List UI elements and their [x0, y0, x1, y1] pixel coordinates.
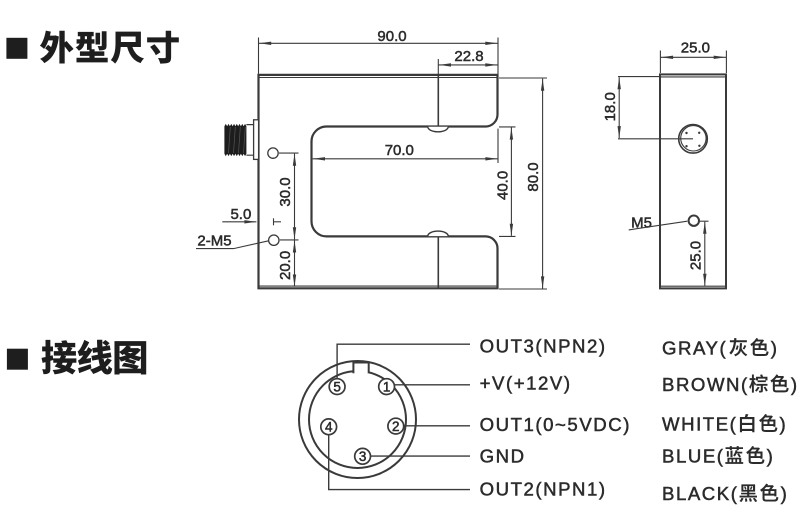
dimension 18.0 extension lines — [618, 76, 660, 78]
svg-text:20.0: 20.0 — [277, 251, 294, 280]
svg-text:OUT3(NPN2): OUT3(NPN2) — [480, 336, 607, 357]
side view: body outline — [660, 74, 726, 288]
dimension 22.8 extension line — [437, 59, 439, 75]
heading text: 外型尺寸 (outline dimensions) — [40, 31, 179, 64]
svg-text:BLUE(: BLUE( — [662, 446, 725, 467]
svg-text:3: 3 — [359, 449, 367, 464]
wiring label GRAY(灰色) — [662, 338, 777, 359]
dimension 18.0 line — [618, 77, 620, 138]
dimension 5.0 tick marks — [273, 218, 275, 225]
svg-text:70.0: 70.0 — [385, 142, 414, 159]
front view: inner vertical edge upper arm — [437, 76, 439, 127]
side view: M5 screw hole — [689, 216, 699, 226]
svg-text:): ) — [791, 374, 797, 395]
svg-text:BROWN(: BROWN( — [662, 374, 749, 395]
heading square: wiring diagram — [7, 349, 28, 370]
front view: upper mounting hole — [268, 148, 278, 158]
dimension 80.0 extension lines — [499, 77, 547, 79]
connector pin 4 — [321, 419, 337, 435]
wire pin5 to OUT3 — [337, 344, 470, 380]
front view: connector neck — [246, 125, 253, 156]
svg-text:GND: GND — [480, 446, 526, 467]
wire pin1 to +V — [393, 384, 470, 386]
connector face: outer circle — [299, 361, 416, 478]
svg-text:5.0: 5.0 — [230, 206, 251, 223]
heading text: 接线图 (wiring diagram) — [42, 340, 147, 375]
front view: U-shaped sensor body outline — [259, 75, 498, 288]
heading square: outline dimensions — [6, 38, 27, 59]
label 2-M5 leader line — [196, 241, 269, 249]
svg-text:25.0: 25.0 — [681, 40, 710, 57]
wire pin4 to OUT2 — [329, 433, 470, 490]
front view: top chamfer edge line — [260, 77, 497, 79]
dimension 25.0 right extension line — [700, 220, 709, 222]
svg-text:30.0: 30.0 — [277, 177, 294, 206]
connector pin 3 — [355, 448, 371, 464]
dimension 90.0 line — [259, 42, 499, 44]
svg-text:18.0: 18.0 — [602, 92, 619, 121]
svg-text:): ) — [771, 338, 777, 359]
svg-text:90.0: 90.0 — [377, 28, 406, 45]
side view: top chamfer edge — [661, 76, 725, 78]
front view: upper lens bump — [428, 127, 448, 132]
svg-text:2-M5: 2-M5 — [197, 232, 231, 249]
svg-text:WHITE(: WHITE( — [662, 414, 737, 435]
front view: M12 connector thread (black, serrated) — [224, 124, 246, 156]
svg-text:BLACK(: BLACK( — [662, 483, 738, 504]
svg-text:2: 2 — [392, 419, 400, 434]
front view: bottom chamfer edge line — [260, 285, 497, 287]
svg-text:): ) — [767, 446, 773, 467]
wire pin3 to GND — [369, 455, 470, 457]
svg-text:+V(+12V): +V(+12V) — [480, 373, 572, 394]
svg-text:22.8: 22.8 — [454, 48, 483, 65]
front view: inner vertical edge lower arm — [437, 236, 439, 288]
side view: connector pin dots — [685, 132, 700, 148]
svg-text:OUT1(0~5VDC): OUT1(0~5VDC) — [480, 414, 631, 435]
connector face: inner circle — [309, 371, 406, 468]
wiring label BLUE(蓝色) — [662, 446, 773, 467]
dimension 25.0 top line — [660, 56, 726, 58]
dimension 25.0 top extension lines — [659, 51, 661, 74]
svg-text:40.0: 40.0 — [495, 171, 512, 200]
svg-text:OUT2(NPN1): OUT2(NPN1) — [480, 479, 607, 500]
svg-text:80.0: 80.0 — [525, 162, 542, 191]
connector pin 5 — [329, 379, 345, 395]
wiring label WHITE(白色) — [662, 414, 786, 435]
side view: bottom chamfer edge — [661, 285, 725, 287]
wiring label BLACK(黑色) — [662, 483, 787, 504]
dimension 30.0 line — [294, 154, 296, 240]
front view: lower lens bump — [428, 231, 448, 236]
side view: connector circle inner — [681, 126, 706, 151]
svg-text:4: 4 — [325, 420, 333, 435]
dimension 90.0 extension lines — [258, 38, 260, 74]
connector pin 1 — [379, 379, 395, 395]
dimension 70.0 extension line — [497, 129, 499, 163]
svg-text:): ) — [780, 414, 786, 435]
label M5 leader line — [629, 221, 688, 230]
svg-text:5: 5 — [333, 379, 341, 394]
dimension 22.8 line — [438, 64, 498, 66]
dimension 25.0 right line — [704, 222, 706, 286]
wire pin2 to OUT1 — [402, 425, 470, 427]
svg-text:): ) — [781, 483, 787, 504]
dimension 30.0 extension lines — [279, 152, 299, 154]
wiring labels left column — [480, 336, 631, 500]
dimension 80.0 line — [542, 79, 544, 289]
dimension 5.0 line with arrow — [222, 221, 256, 223]
svg-text:1: 1 — [383, 379, 391, 394]
connector face: keyway notch — [353, 363, 368, 374]
dimension 40.0 line — [510, 128, 512, 236]
side view: connector circle outer — [679, 125, 708, 154]
connector pin 2 — [388, 418, 404, 434]
front view: connector flange — [254, 120, 259, 160]
dimension 40.0 extension lines — [499, 126, 516, 128]
wiring label BROWN(棕色) — [662, 374, 797, 395]
dimension 20.0 line — [294, 240, 296, 286]
svg-text:GRAY(: GRAY( — [662, 338, 727, 359]
svg-text:25.0: 25.0 — [688, 241, 705, 270]
dimension 70.0 line — [313, 158, 498, 160]
front view: lower mounting hole — [269, 235, 279, 245]
